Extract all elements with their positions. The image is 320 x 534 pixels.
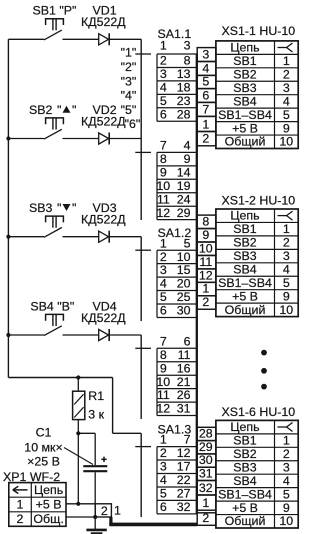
pin strip SA1 to XS1-1 <box>197 47 216 145</box>
wire: VD1 cathode to vertical bus <box>109 38 141 40</box>
svg-text:3: 3 <box>184 39 191 53</box>
svg-text:7: 7 <box>160 139 167 153</box>
svg-text:": " <box>57 201 61 215</box>
svg-text:11: 11 <box>157 192 170 206</box>
svg-text:2: 2 <box>202 295 209 309</box>
push button SB1 <box>8 19 98 40</box>
wire: XP1 common to ground junction <box>66 516 95 518</box>
svg-text:12: 12 <box>156 402 170 416</box>
svg-text:23: 23 <box>177 94 191 108</box>
svg-text:4: 4 <box>160 473 167 487</box>
svg-text:SB3: SB3 <box>233 81 257 95</box>
svg-text:4: 4 <box>160 80 167 94</box>
svg-text:+5 В: +5 В <box>36 497 62 511</box>
pin strip SA1 to XS1-2 <box>197 214 216 309</box>
svg-text:6: 6 <box>160 107 167 121</box>
svg-text:8: 8 <box>202 214 209 228</box>
svg-text:28: 28 <box>199 427 213 441</box>
svg-text:14: 14 <box>177 165 191 179</box>
svg-text:Цепь: Цепь <box>34 483 63 497</box>
svg-text:30: 30 <box>177 304 191 318</box>
svg-text:6: 6 <box>160 500 167 514</box>
svg-text:6: 6 <box>184 334 191 348</box>
svg-text:Общий: Общий <box>225 514 266 528</box>
svg-text:2: 2 <box>160 446 167 460</box>
svg-text:SB3: SB3 <box>233 460 257 474</box>
svg-text:Общ.: Общ. <box>33 512 63 526</box>
svg-text:31: 31 <box>199 466 213 480</box>
svg-text:1: 1 <box>283 54 290 68</box>
svg-text:3: 3 <box>160 67 167 81</box>
wire: bus to R1 node horizontal <box>8 377 112 379</box>
svg-text:5: 5 <box>160 94 167 108</box>
svg-text:SB2: SB2 <box>233 236 257 250</box>
svg-text:9: 9 <box>160 165 167 179</box>
svg-text:5: 5 <box>283 276 290 290</box>
svg-text:26: 26 <box>177 388 191 402</box>
svg-text:10: 10 <box>199 241 213 255</box>
connector table XS1-1 HU-10 <box>216 24 298 149</box>
svg-text:XS1-6 HU-10: XS1-6 HU-10 <box>222 405 296 419</box>
svg-text:1: 1 <box>202 282 209 296</box>
diode VD2 КД522Д <box>81 103 126 145</box>
svg-text:Цепь: Цепь <box>230 40 259 54</box>
svg-text:1: 1 <box>283 434 290 448</box>
svg-text:": " <box>57 103 61 117</box>
svg-text:SB3: SB3 <box>29 201 53 215</box>
svg-text:Общий: Общий <box>225 135 266 149</box>
svg-text:9: 9 <box>283 289 290 303</box>
svg-text:": " <box>72 103 76 117</box>
junction: R1 bottom / C1 branch <box>76 431 80 435</box>
svg-text:2: 2 <box>283 236 290 250</box>
svg-text:SB2: SB2 <box>233 447 257 461</box>
svg-text:"1": "1" <box>121 46 137 60</box>
junction: SB3 on left bus <box>6 235 10 239</box>
switch section SA1.1 rows 7-12 <box>135 139 197 220</box>
svg-text:R1: R1 <box>88 389 104 403</box>
svg-text:11: 11 <box>157 388 170 402</box>
junction: SB2 on left bus <box>6 136 10 140</box>
svg-text:1: 1 <box>202 496 209 510</box>
svg-text:1: 1 <box>202 117 209 131</box>
svg-text:12: 12 <box>156 206 170 220</box>
svg-text:16: 16 <box>177 361 191 375</box>
svg-text:10: 10 <box>279 303 293 317</box>
svg-text:+5 В: +5 В <box>232 121 258 135</box>
net labels "1".."6" <box>121 46 141 132</box>
svg-text:9: 9 <box>283 501 290 515</box>
svg-text:КД522Д: КД522Д <box>81 213 126 227</box>
svg-text:"5": "5" <box>121 103 137 117</box>
svg-text:6: 6 <box>160 304 167 318</box>
pin box 2 (SA1 common pin) <box>95 504 111 518</box>
svg-text:32: 32 <box>177 500 191 514</box>
svg-text:9: 9 <box>160 361 167 375</box>
svg-text:8: 8 <box>160 152 167 166</box>
svg-text:1: 1 <box>160 236 167 250</box>
resistor R1 3k <box>73 378 105 434</box>
svg-text:SB1 "Р": SB1 "Р" <box>33 4 77 18</box>
svg-text:10: 10 <box>279 514 293 528</box>
svg-text:1: 1 <box>283 222 290 236</box>
svg-text:28: 28 <box>177 107 191 121</box>
svg-text:22: 22 <box>177 473 191 487</box>
svg-text:5: 5 <box>283 108 290 122</box>
svg-text:5: 5 <box>202 75 209 89</box>
svg-text:C1: C1 <box>36 426 52 440</box>
svg-text:31: 31 <box>177 402 191 416</box>
switch section SA1.3 <box>135 422 197 514</box>
svg-text:1: 1 <box>114 504 121 518</box>
svg-text:18: 18 <box>177 80 191 94</box>
diode VD4 КД522Д <box>81 299 126 341</box>
svg-text:15: 15 <box>177 263 191 277</box>
svg-text:Общий: Общий <box>225 303 266 317</box>
wire: horizontal jog to SA1.3 bus <box>113 432 142 434</box>
svg-text:3: 3 <box>283 460 290 474</box>
svg-text:": " <box>72 201 76 215</box>
svg-text:25: 25 <box>177 290 191 304</box>
svg-text:2: 2 <box>283 67 290 81</box>
svg-text:3: 3 <box>160 263 167 277</box>
junction: SB4 on left bus <box>6 333 10 337</box>
svg-text:XS1-1 HU-10: XS1-1 HU-10 <box>222 24 296 38</box>
svg-text:4: 4 <box>283 262 290 276</box>
ground symbol <box>86 517 106 533</box>
svg-text:3: 3 <box>283 249 290 263</box>
svg-text:3 к: 3 к <box>88 408 104 422</box>
svg-text:"6": "6" <box>125 117 141 131</box>
pin strip SA1 to XS1-6 <box>197 427 216 526</box>
svg-text:19: 19 <box>177 179 191 193</box>
svg-text:1: 1 <box>160 433 167 447</box>
svg-text:SB1: SB1 <box>233 434 257 448</box>
svg-text:2: 2 <box>160 54 167 68</box>
svg-text:5: 5 <box>283 487 290 501</box>
switch section SA1.2 <box>135 226 197 318</box>
svg-text:7: 7 <box>160 334 167 348</box>
svg-text:7: 7 <box>184 433 191 447</box>
svg-text:5: 5 <box>160 290 167 304</box>
wire: VD2 cathode to vertical bus <box>109 138 141 140</box>
wire: vertical bus segment (VD1/VD2 outputs to SA1.1) <box>140 39 142 220</box>
svg-text:32: 32 <box>199 481 213 495</box>
svg-text:SB1–SB4: SB1–SB4 <box>218 487 272 501</box>
svg-text:Цепь: Цепь <box>230 208 259 222</box>
svg-text:9: 9 <box>283 121 290 135</box>
svg-text:SB4: SB4 <box>233 94 257 108</box>
svg-text:SB3: SB3 <box>233 249 257 263</box>
svg-text:КД522Д: КД522Д <box>81 114 126 128</box>
label SB2 "up-arrow" <box>29 103 76 117</box>
svg-text:2: 2 <box>283 447 290 461</box>
svg-text:XS1-2 HU-10: XS1-2 HU-10 <box>222 194 296 208</box>
svg-text:1: 1 <box>160 39 167 53</box>
svg-text:29: 29 <box>199 440 213 454</box>
svg-text:SB2: SB2 <box>233 67 257 81</box>
svg-text:10: 10 <box>156 375 170 389</box>
svg-text:30: 30 <box>199 453 213 467</box>
svg-text:13: 13 <box>177 67 191 81</box>
push button SB4 <box>8 314 98 335</box>
wire: VD3 cathode to vertical bus <box>109 236 141 238</box>
svg-text:"4": "4" <box>121 89 137 103</box>
svg-text:5: 5 <box>184 236 191 250</box>
svg-text:2: 2 <box>202 511 209 525</box>
svg-text:24: 24 <box>177 192 191 206</box>
svg-text:10: 10 <box>156 179 170 193</box>
switch section SA1.1 <box>135 27 197 121</box>
wire: vertical bus segment (VD4 output) <box>140 335 142 419</box>
svg-text:27: 27 <box>177 487 191 501</box>
junction: C1/ground/common <box>93 515 97 519</box>
svg-text:+5 В: +5 В <box>232 501 258 515</box>
wire: XP1 +5V to pin box <box>66 503 95 505</box>
svg-text:2: 2 <box>101 504 108 518</box>
svg-text:4: 4 <box>184 139 191 153</box>
wire: VD4 cathode to vertical bus <box>109 334 141 336</box>
svg-text:11: 11 <box>178 348 191 362</box>
svg-text:"3": "3" <box>121 75 137 89</box>
svg-text:21: 21 <box>177 375 191 389</box>
junction: R1 top on bus wire <box>76 375 80 379</box>
svg-text:SB1: SB1 <box>233 222 257 236</box>
svg-text:"2": "2" <box>121 60 137 74</box>
svg-text:КД522Д: КД522Д <box>81 311 126 325</box>
svg-text:29: 29 <box>177 206 191 220</box>
svg-text:4: 4 <box>160 277 167 291</box>
ellipsis dots (XS1-3..XS1-5 omitted) <box>261 350 267 390</box>
svg-text:20: 20 <box>177 277 191 291</box>
svg-text:2: 2 <box>17 512 24 526</box>
wire: left common bus from SB1 down to R1 node <box>7 39 9 377</box>
svg-text:7: 7 <box>202 102 209 116</box>
svg-text:1: 1 <box>17 497 24 511</box>
svg-text:8: 8 <box>160 348 167 362</box>
svg-text:10: 10 <box>279 135 293 149</box>
svg-text:3: 3 <box>283 81 290 95</box>
svg-text:КД522Д: КД522Д <box>81 15 126 29</box>
push button SB3 <box>8 216 98 237</box>
svg-text:10 мк×: 10 мк× <box>24 441 62 455</box>
svg-text:2: 2 <box>202 132 209 146</box>
connector table XS1-2 HU-10 <box>216 194 298 317</box>
svg-text:4: 4 <box>283 94 290 108</box>
push button SB2 <box>8 118 98 139</box>
label C1 value with leader line <box>24 426 93 469</box>
label SB3 "down-arrow" <box>29 201 76 215</box>
svg-text:SB4: SB4 <box>233 474 257 488</box>
diode VD1 КД522Д <box>81 4 126 46</box>
svg-text:12: 12 <box>177 446 191 460</box>
svg-text:11: 11 <box>199 255 212 269</box>
svg-text:3: 3 <box>160 460 167 474</box>
svg-text:8: 8 <box>184 54 191 68</box>
switch assembly SA1 right edge <box>196 54 198 514</box>
svg-text:SB4: SB4 <box>233 262 257 276</box>
svg-text:10: 10 <box>177 250 191 264</box>
svg-text:Цепь: Цепь <box>230 420 259 434</box>
switch section SA1.2 rows 7-12 <box>135 334 197 415</box>
thick common bus to XS strips <box>109 517 197 525</box>
svg-text:4: 4 <box>202 61 209 75</box>
svg-text:12: 12 <box>199 268 213 282</box>
svg-text:SB4 "В": SB4 "В" <box>30 299 74 313</box>
wire: vertical bus to SA1.3 / pin 1 <box>140 433 142 517</box>
svg-text:+5 В: +5 В <box>232 289 258 303</box>
connector table XS1-6 HU-10 <box>216 405 298 528</box>
svg-text:SB1–SB4: SB1–SB4 <box>218 276 272 290</box>
capacitor C1 10uF 25V <box>78 433 107 517</box>
svg-text:5: 5 <box>160 487 167 501</box>
svg-text:9: 9 <box>184 152 191 166</box>
diode VD3 КД522Д <box>81 201 126 243</box>
wire: vertical bus segment (VD3 output to SA1.2) <box>140 237 142 321</box>
svg-text:SB1: SB1 <box>233 54 257 68</box>
junction: +5V rail at XP1 wire <box>76 502 80 506</box>
svg-text:SB2: SB2 <box>29 103 53 117</box>
wire: vertical jog down <box>112 378 114 434</box>
svg-text:6: 6 <box>202 88 209 102</box>
svg-text:SB1–SB4: SB1–SB4 <box>218 108 272 122</box>
svg-text:3: 3 <box>202 47 209 61</box>
svg-text:4: 4 <box>283 474 290 488</box>
svg-text:×25 В: ×25 В <box>27 455 60 469</box>
connector table XP1 WF-2 <box>3 470 66 527</box>
svg-text:17: 17 <box>177 460 191 474</box>
svg-text:2: 2 <box>160 250 167 264</box>
svg-text:9: 9 <box>202 228 209 242</box>
wire: +5V rail up from XP1 to R1 <box>77 433 79 504</box>
svg-text:XP1 WF-2: XP1 WF-2 <box>3 470 60 484</box>
